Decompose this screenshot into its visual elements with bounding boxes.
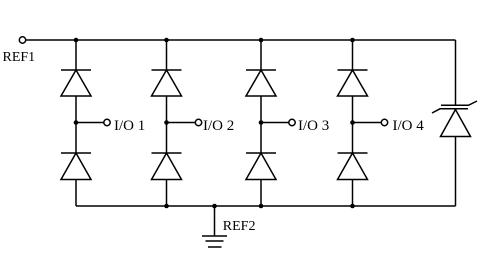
terminal I/O 2 [195, 119, 201, 125]
wire bottom rail REF2 [76, 205, 456, 207]
node junction top branch 1 [74, 38, 79, 43]
node junction top branch 4 [350, 38, 355, 43]
terminal REF1 [19, 37, 25, 43]
svg-text:I/O 3: I/O 3 [298, 118, 329, 134]
svg-text:I/O 4: I/O 4 [393, 118, 425, 134]
diode D1 [61, 70, 91, 96]
node junction top branch 2 [164, 38, 169, 43]
node I/O 1 junction [74, 120, 79, 125]
node I/O 3 junction [259, 120, 264, 125]
wire branch 1 middle [75, 96, 77, 153]
zener diode Z1 [432, 101, 477, 137]
wire branch 2 middle [166, 96, 168, 153]
node junction bottom branch 3 [259, 204, 264, 209]
diode D8 [338, 153, 368, 180]
wire I/O 4 stub [353, 122, 382, 124]
wire branch 3 upper [260, 40, 262, 70]
wire right side lower [455, 137, 457, 207]
svg-text:I/O 2: I/O 2 [203, 118, 234, 134]
wire branch 4 lower [352, 180, 354, 207]
diode D4 [152, 153, 182, 180]
wire branch 3 lower [260, 180, 262, 207]
terminal I/O 1 [104, 119, 110, 125]
wire branch 3 middle [260, 96, 262, 153]
node junction bottom branch 4 [350, 204, 355, 209]
wire right side upper [455, 40, 457, 105]
terminal I/O 4 [381, 119, 387, 125]
diode D2 [61, 153, 91, 180]
node junction top branch 3 [259, 38, 264, 43]
wire top rail REF1 [26, 39, 456, 41]
wire branch 4 upper [352, 40, 354, 70]
diode D6 [246, 153, 276, 180]
terminal I/O 3 [289, 119, 295, 125]
wire branch 2 upper [166, 40, 168, 70]
node I/O 2 junction [164, 120, 169, 125]
node I/O 4 junction [350, 120, 355, 125]
wire branch 1 lower [75, 180, 77, 207]
node junction bottom ground [212, 204, 217, 209]
wire branch 4 middle [352, 96, 354, 153]
diode D3 [152, 70, 182, 96]
diode D7 [338, 70, 368, 96]
wire I/O 2 stub [167, 122, 196, 124]
svg-text:REF1: REF1 [3, 50, 36, 65]
wire branch 2 lower [166, 180, 168, 207]
wire I/O 3 stub [261, 122, 289, 124]
wire branch 1 upper [75, 40, 77, 70]
wire I/O 1 stub [76, 122, 104, 124]
wire ground stem [214, 206, 216, 236]
node junction bottom branch 2 [164, 204, 169, 209]
ground [202, 236, 227, 247]
svg-text:I/O 1: I/O 1 [114, 118, 145, 134]
diode D5 [246, 70, 276, 96]
svg-text:REF2: REF2 [223, 219, 256, 234]
